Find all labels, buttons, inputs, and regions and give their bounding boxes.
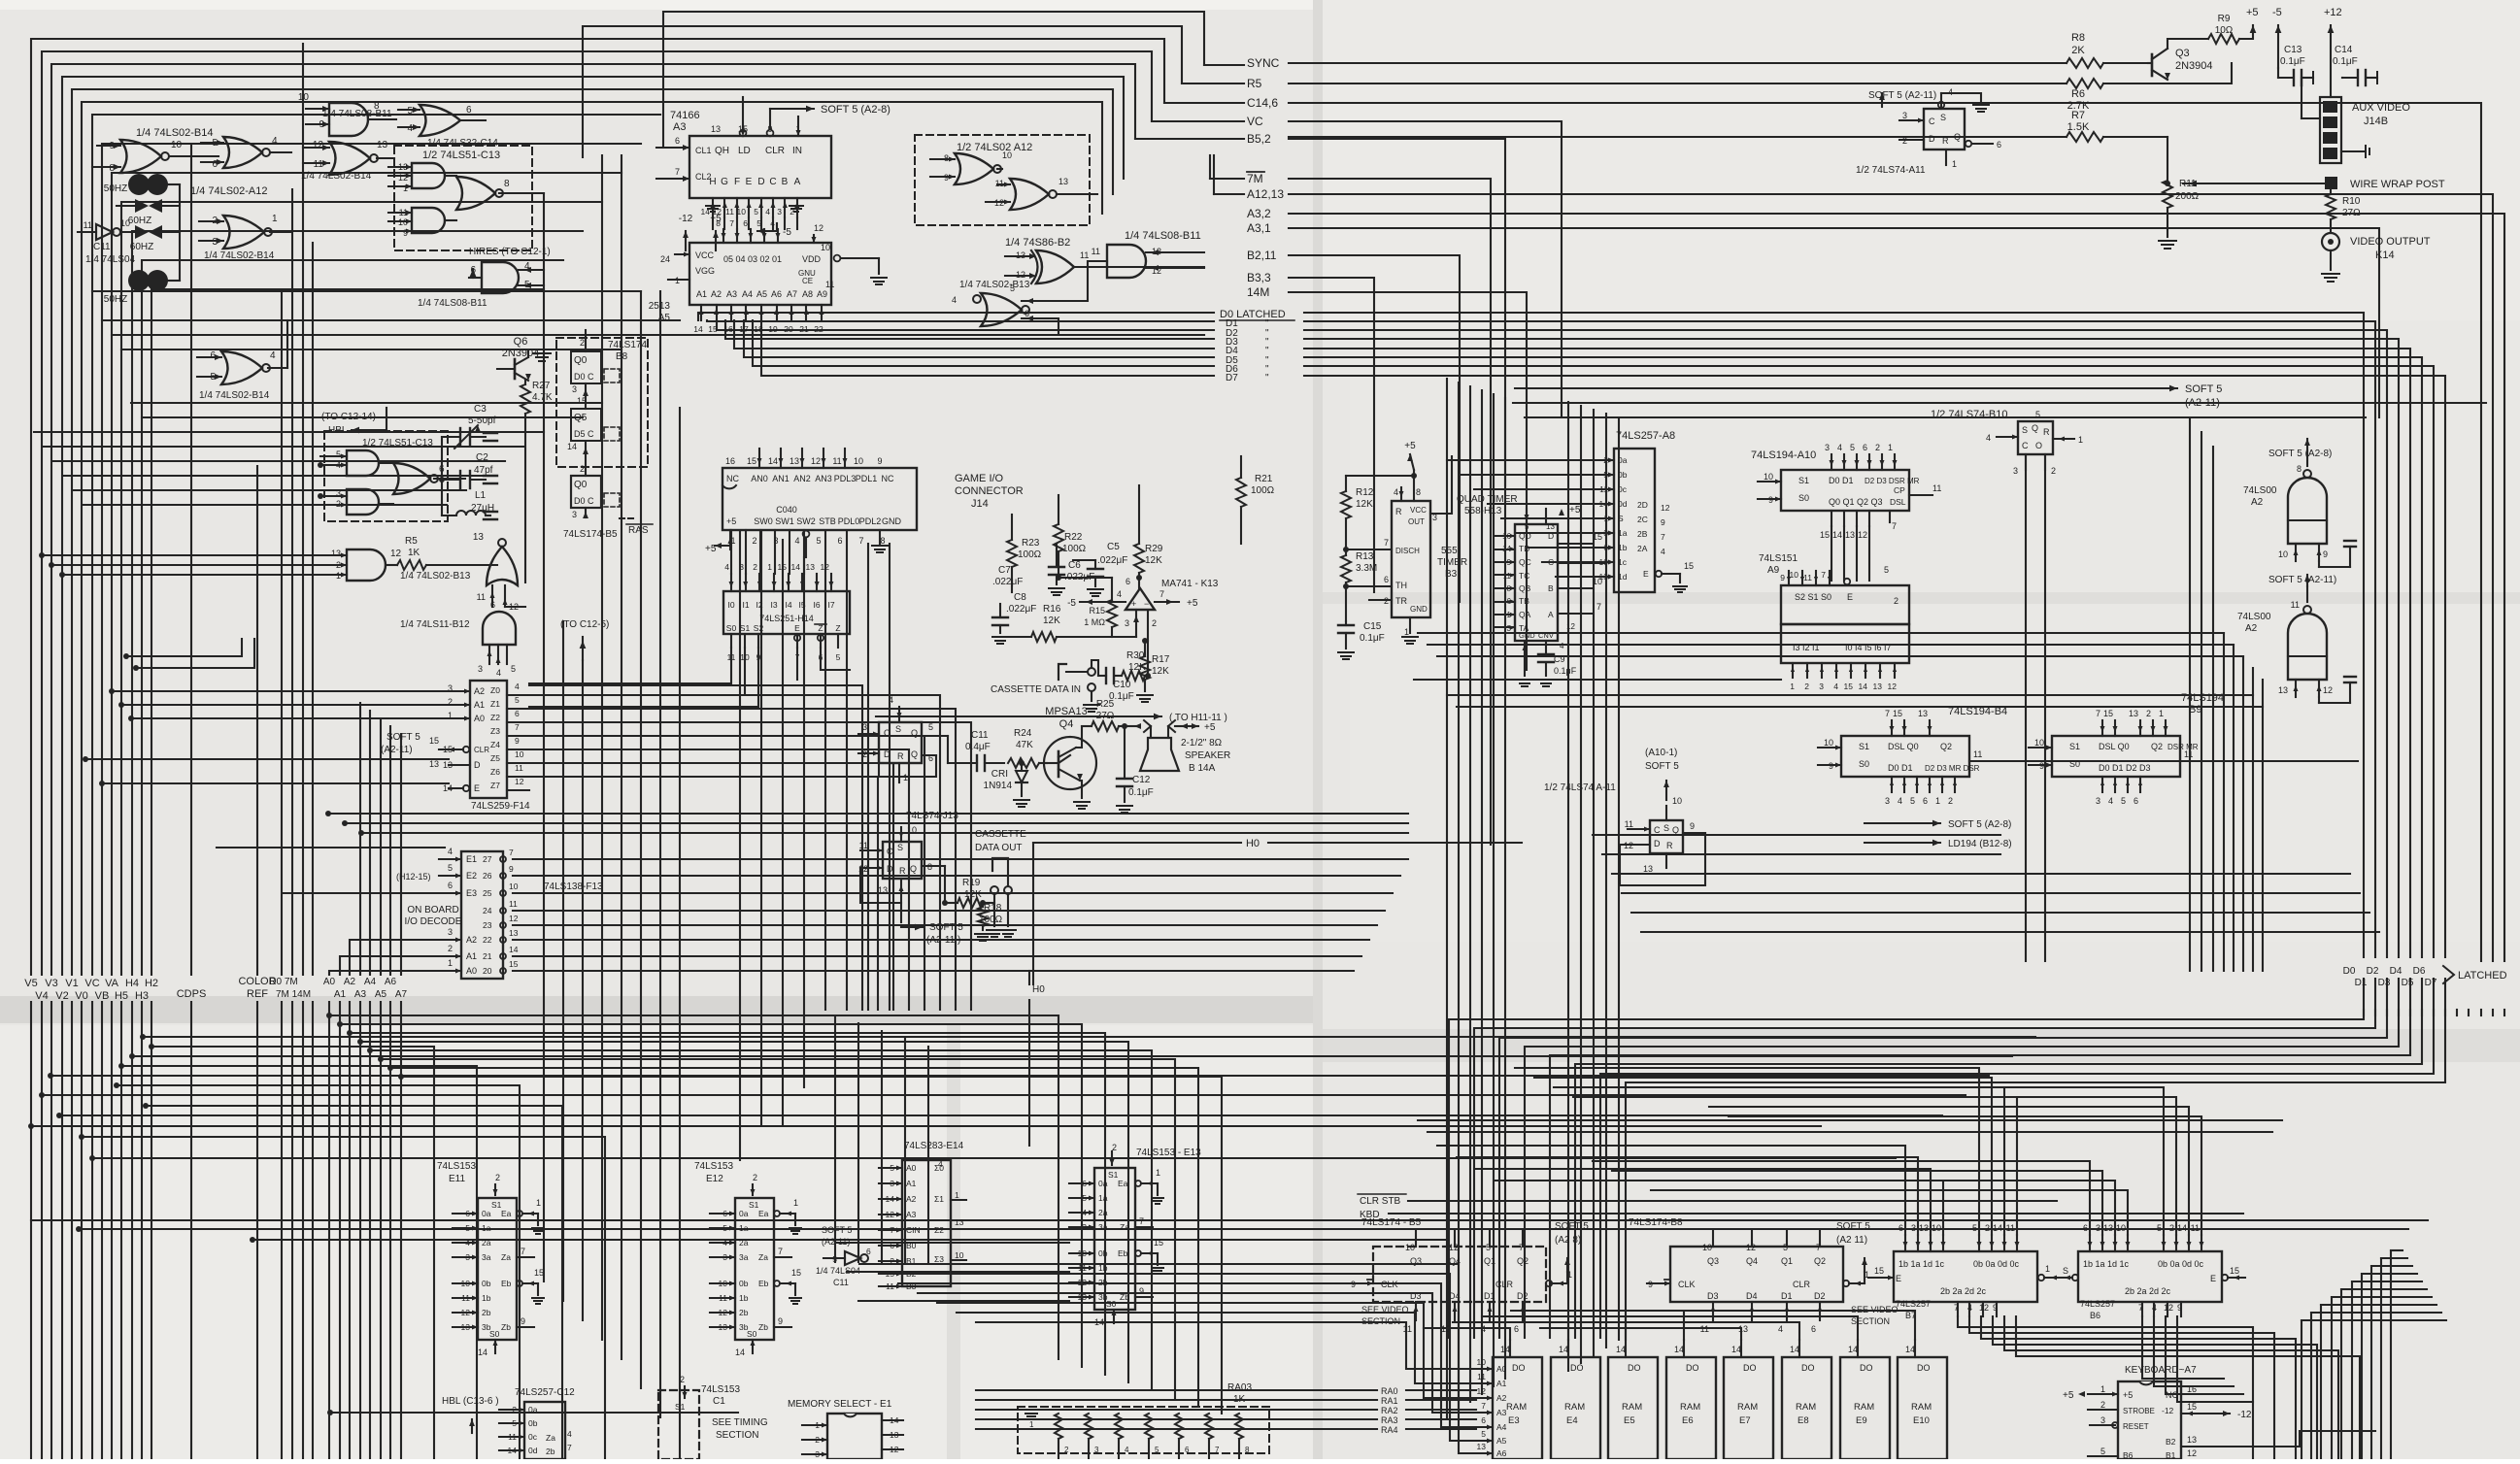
wire: [1665, 781, 1667, 800]
svg-text:1: 1: [793, 1198, 798, 1208]
svg-text:OUT: OUT: [1408, 517, 1425, 526]
svg-text:2: 2: [1948, 796, 1953, 806]
wire: [715, 545, 730, 547]
svg-text:7M 14M: 7M 14M: [276, 989, 311, 1000]
svg-text:3: 3: [448, 927, 453, 937]
wire: [31, 39, 1164, 975]
wire A5: [380, 718, 382, 975]
svg-text:7: 7: [1661, 532, 1665, 542]
wire: [1289, 62, 2066, 64]
ic 555 TIMER B3: [1392, 501, 1430, 617]
wire: [42, 1094, 1966, 1096]
wire: [1094, 577, 1096, 586]
wire: [1146, 267, 1204, 269]
svg-text:B2,11: B2,11: [1247, 249, 1277, 262]
svg-text:(A2 8): (A2 8): [1555, 1235, 1581, 1246]
svg-text:+5: +5: [1569, 505, 1581, 516]
wire: [1413, 470, 1415, 501]
wire: [51, 64, 1135, 975]
svg-text:Z0: Z0: [490, 685, 500, 695]
wire: [2330, 219, 2332, 233]
wire: [83, 504, 447, 506]
wire A7: [400, 734, 402, 975]
wire: [2318, 544, 2320, 561]
svg-text:1: 1: [272, 214, 278, 224]
wire: [1247, 171, 1264, 173]
svg-text:21: 21: [483, 951, 492, 961]
ground: [1402, 636, 1418, 638]
svg-text:R12: R12: [1356, 487, 1374, 498]
svg-text:D4: D4: [2390, 966, 2402, 977]
wire: [1124, 726, 1126, 779]
wire: [785, 108, 814, 110]
svg-text:RA1: RA1: [1381, 1396, 1398, 1406]
wire: [1917, 1235, 1919, 1251]
svg-text:A5: A5: [1496, 1436, 1507, 1446]
wire: [1069, 1226, 1094, 1228]
wire: [2183, 183, 2325, 184]
wire: [1304, 366, 2434, 957]
svg-text:3: 3: [572, 510, 577, 519]
svg-text:R6: R6: [2071, 88, 2085, 100]
wire: [439, 858, 461, 860]
svg-text:H2: H2: [145, 978, 158, 989]
wire: [469, 277, 482, 279]
svg-text:2: 2: [2146, 709, 2151, 718]
svg-text:H4: H4: [125, 978, 139, 989]
svg-text:2: 2: [2169, 1223, 2174, 1233]
svg-text:15: 15: [2230, 1266, 2239, 1276]
svg-text:C: C: [1929, 116, 1935, 126]
wire: [1474, 488, 1593, 490]
svg-text:0a: 0a: [528, 1405, 538, 1414]
svg-text:Za: Za: [501, 1252, 511, 1262]
ground: [2322, 273, 2339, 275]
ground: [1025, 1413, 1037, 1414]
wire: [1057, 193, 1097, 195]
svg-text:C5: C5: [1107, 542, 1120, 552]
wire: [1894, 454, 1896, 470]
wire: [34, 431, 544, 433]
wire: [759, 530, 761, 574]
svg-text:CASSETTE: CASSETTE: [975, 829, 1026, 840]
wire: [1178, 1439, 1180, 1459]
wire: [1493, 394, 1495, 1386]
flip-flop 74LS74-J13 upper: [879, 722, 922, 763]
svg-text:14: 14: [693, 324, 703, 334]
svg-text:D0 7M: D0 7M: [269, 977, 297, 987]
svg-text:15: 15: [1893, 709, 1902, 718]
svg-text:S1: S1: [740, 623, 751, 633]
wire: [1406, 1428, 1476, 1430]
svg-text:RAM: RAM: [1680, 1402, 1700, 1413]
wire: [359, 1002, 361, 1459]
wire: [1304, 349, 2410, 957]
wire: [715, 231, 717, 250]
wire: [1593, 547, 1614, 549]
wire: [1468, 1440, 1493, 1442]
wire: [1556, 576, 1593, 578]
diodes 60HZ: [135, 199, 149, 213]
wire: [739, 530, 741, 1160]
wire: [2141, 1302, 2143, 1316]
wire: [398, 126, 420, 128]
wire: [685, 231, 687, 250]
svg-text:1: 1: [1790, 682, 1795, 691]
wire: [1602, 853, 2000, 855]
svg-text:R22: R22: [1064, 532, 1083, 543]
svg-text:Σ1: Σ1: [934, 1194, 944, 1204]
wire: [1593, 503, 1614, 505]
svg-text:DO: DO: [1860, 1363, 1873, 1373]
wire: [117, 1085, 520, 1459]
wire: [2252, 668, 2254, 971]
wire: [42, 51, 1152, 975]
svg-text:3: 3: [2013, 466, 2018, 476]
wire: [2306, 450, 2308, 466]
ground: [872, 545, 888, 547]
svg-text:H: H: [709, 177, 716, 187]
svg-text:1: 1: [2100, 1384, 2105, 1394]
wire: [1112, 636, 1136, 638]
wire: [1891, 777, 1893, 792]
svg-text:S0: S0: [1859, 759, 1869, 769]
wire: [2262, 680, 2264, 971]
ic 74LS257 B7: [1894, 1251, 2037, 1302]
svg-text:74LS174-B5: 74LS174-B5: [563, 529, 618, 540]
svg-text:12K: 12K: [1043, 616, 1060, 626]
wire: [2295, 544, 2297, 561]
svg-text:I7: I7: [827, 600, 834, 610]
wire: [2166, 1316, 2243, 1394]
wire: [867, 544, 869, 1010]
svg-text:I6: I6: [813, 600, 820, 610]
wire: [2167, 1302, 2168, 1316]
svg-text:1b: 1b: [482, 1293, 491, 1303]
svg-text:E1: E1: [466, 854, 477, 864]
svg-text:Q4: Q4: [1746, 1256, 1758, 1266]
svg-text:9: 9: [877, 456, 882, 466]
wire: [111, 1002, 113, 1459]
wire: [2101, 1235, 2103, 1251]
svg-text:V5: V5: [24, 978, 37, 989]
wire: [1069, 1212, 1094, 1214]
svg-text:Q0: Q0: [574, 355, 588, 366]
svg-text:L1: L1: [475, 490, 487, 501]
wire: [763, 229, 765, 243]
ground: [975, 933, 991, 935]
wire: [1712, 1231, 1714, 1247]
svg-text:VDD: VDD: [802, 254, 822, 264]
svg-text:B1: B1: [2166, 1450, 2176, 1459]
wire: [710, 1213, 735, 1214]
wire: [758, 449, 760, 468]
wire: [101, 1002, 103, 1459]
svg-text:14: 14: [1848, 1345, 1858, 1354]
wire: [784, 198, 786, 217]
wire: [1495, 549, 1515, 550]
wire: [1028, 971, 1030, 984]
svg-text:10: 10: [171, 140, 183, 150]
svg-text:7: 7: [1215, 1446, 1220, 1454]
wire: [782, 540, 784, 1126]
svg-text:12: 12: [313, 140, 324, 150]
wire: [772, 198, 774, 217]
svg-text:DSL: DSL: [1890, 497, 1906, 507]
wire: [2374, 1010, 2376, 1015]
wire: [1751, 1302, 1753, 1320]
svg-text:11: 11: [2184, 749, 2193, 759]
ic RAM E5: [1608, 1357, 1658, 1459]
wire: [757, 230, 777, 232]
wire: [1345, 621, 1347, 625]
wire: [803, 557, 805, 1087]
wire: [1558, 543, 1593, 545]
wire: [1593, 410, 1595, 1355]
wire: [745, 574, 747, 591]
ground: [1084, 704, 1099, 706]
wire: [2152, 49, 2167, 59]
svg-text:100Ω: 100Ω: [1251, 485, 1275, 496]
svg-text:S0: S0: [489, 1329, 500, 1339]
wire: [1138, 485, 1140, 544]
wire: [1509, 1340, 1511, 1357]
svg-text:E2: E2: [466, 871, 477, 881]
wire: [2320, 1305, 2322, 1459]
svg-text:1/2 74LS74-A11: 1/2 74LS74-A11: [1856, 165, 1926, 176]
wire: [1482, 1316, 1626, 1340]
wire: [1891, 720, 1893, 736]
wire: [1345, 582, 1347, 621]
svg-text:KEYBOARD~A7: KEYBOARD~A7: [2125, 1365, 2197, 1376]
wire: [92, 115, 660, 975]
wire: [1495, 574, 1515, 576]
svg-text:2: 2: [495, 1173, 500, 1182]
wire: [488, 645, 490, 664]
wire: [168, 280, 180, 282]
wire: [1428, 1131, 2272, 1133]
svg-text:10: 10: [509, 882, 519, 891]
ic 1/2 74LS51-C13 dashed block (lower): [324, 431, 448, 521]
svg-text:10: 10: [1002, 150, 1012, 160]
wire: [1968, 1302, 1970, 1316]
svg-text:Q2: Q2: [1517, 1256, 1529, 1266]
svg-text:1/2 74LS51-C13: 1/2 74LS51-C13: [422, 150, 500, 161]
wire: [1513, 402, 2486, 404]
wire: [1408, 1200, 2057, 1202]
wire: [2139, 777, 2141, 792]
wire: [2352, 1281, 2422, 1282]
svg-text:2b 2a 2d 2c: 2b 2a 2d 2c: [2125, 1286, 2171, 1296]
svg-text:R9: R9: [2218, 14, 2231, 24]
svg-text:15: 15: [429, 736, 439, 746]
wire: [1415, 1302, 1417, 1320]
wire: [976, 1428, 1377, 1430]
svg-text:74LS251-H14: 74LS251-H14: [759, 614, 814, 623]
wire: [805, 305, 807, 320]
wire: [813, 235, 815, 243]
wire: [846, 530, 848, 1010]
wire: [760, 217, 762, 229]
wire: [1474, 979, 2375, 1338]
wire: [1495, 561, 1515, 563]
svg-text:74LS194-A10: 74LS194-A10: [1751, 449, 1816, 461]
svg-text:0c: 0c: [528, 1432, 538, 1442]
svg-text:CLR: CLR: [1793, 1280, 1811, 1289]
wire: [1495, 601, 1515, 603]
svg-text:Eb: Eb: [501, 1279, 512, 1288]
wire: [79, 1228, 2408, 1230]
svg-text:7: 7: [509, 848, 514, 857]
svg-text:12: 12: [2187, 1448, 2197, 1458]
wire: [776, 305, 778, 320]
svg-text:3: 3: [1825, 443, 1830, 452]
svg-text:2a: 2a: [482, 1238, 491, 1248]
wire: [656, 178, 689, 180]
wire: [1069, 1281, 1094, 1283]
svg-text:9: 9: [778, 1316, 783, 1326]
svg-text:15: 15: [791, 1268, 801, 1278]
wire: [268, 367, 287, 369]
svg-text:74166: 74166: [670, 110, 700, 121]
svg-text:R5: R5: [1247, 77, 1262, 90]
svg-text:8: 8: [1245, 1446, 1250, 1454]
wire: [789, 530, 790, 574]
wire: [2181, 1446, 2300, 1447]
wire: [948, 762, 977, 764]
wire: [730, 634, 732, 648]
wire: [72, 89, 1113, 975]
wire: [1454, 1302, 1456, 1320]
svg-text:2: 2: [448, 944, 453, 953]
wire: [1605, 414, 1607, 1348]
wire: [2044, 454, 2046, 470]
wire: [2181, 1413, 2197, 1414]
svg-text:11: 11: [1403, 1324, 1412, 1334]
svg-text:74LS257: 74LS257: [2080, 1299, 2115, 1309]
svg-text:5: 5: [1910, 796, 1915, 806]
svg-text:A12,13: A12,13: [1247, 187, 1284, 201]
wire: [1268, 842, 1522, 844]
wire: [1447, 694, 2253, 696]
wire: [529, 709, 956, 1010]
svg-text:19: 19: [768, 324, 778, 334]
wire: [882, 1434, 903, 1436]
svg-text:SW2: SW2: [796, 516, 816, 526]
svg-text:11: 11: [825, 280, 834, 289]
wire: [1458, 383, 1460, 1410]
wire: [999, 625, 1001, 633]
svg-text:5: 5: [2100, 1447, 2105, 1456]
ground: [1117, 805, 1132, 807]
wire: [44, 446, 524, 448]
wire: [1981, 1316, 2296, 1459]
svg-text:74LS00: 74LS00: [2237, 612, 2271, 622]
wire: [453, 1297, 478, 1299]
svg-text:RA0: RA0: [1381, 1386, 1398, 1396]
svg-text:8: 8: [716, 218, 721, 228]
wire: [1345, 633, 1347, 649]
svg-text:1a: 1a: [739, 1223, 749, 1233]
svg-text:A1: A1: [1496, 1379, 1507, 1388]
wire: [562, 621, 564, 1301]
wire: [2306, 586, 2308, 602]
wire: [1116, 675, 1122, 677]
wire: [1909, 494, 1932, 496]
wire: [2152, 720, 2154, 736]
wire: [1522, 1231, 1524, 1247]
wire: [1011, 567, 1013, 592]
wire: [1914, 1340, 1916, 1357]
svg-text:Q: Q: [2032, 423, 2038, 433]
wire: [1598, 1316, 1858, 1340]
ic 74LS174-B5 latch: [571, 476, 601, 508]
wire: [82, 1137, 605, 1459]
wire: [1712, 1302, 1714, 1320]
wire: [1304, 321, 2375, 957]
wire: [879, 1182, 902, 1184]
svg-text:D0 D1: D0 D1: [1829, 476, 1854, 485]
svg-text:D2: D2: [1814, 1291, 1826, 1301]
svg-text:11: 11: [2191, 1223, 2200, 1233]
wire: [710, 1242, 735, 1244]
svg-text:RA4: RA4: [1381, 1425, 1398, 1435]
svg-text:9: 9: [1780, 573, 1785, 582]
wire: [41, 1002, 43, 1459]
wire: [1414, 679, 1781, 681]
svg-text:5: 5: [448, 863, 453, 873]
wire: [349, 1002, 351, 1459]
wire: [1094, 560, 1096, 569]
svg-text:A3,1: A3,1: [1247, 221, 1271, 235]
svg-text:D0 D1: D0 D1: [1888, 763, 1913, 773]
wire: [2252, 25, 2254, 31]
wire: [780, 449, 782, 468]
wire: [1856, 511, 1858, 526]
wire: [529, 763, 893, 1010]
wire: [439, 955, 461, 957]
wire: [513, 924, 1377, 926]
wire: [879, 1273, 902, 1275]
wire: [2153, 1302, 2155, 1316]
svg-text:10: 10: [1405, 1243, 1415, 1252]
wire wrap post: [2325, 177, 2337, 189]
wire: [2101, 720, 2103, 736]
wire: [723, 217, 725, 229]
wire: [59, 1115, 1942, 1116]
svg-text:5: 5: [511, 664, 516, 674]
wire: [2341, 150, 2366, 152]
svg-text:7: 7: [2096, 709, 2100, 718]
wire: [2351, 1281, 2353, 1459]
wire: [426, 564, 497, 566]
wire: [937, 1303, 1468, 1398]
svg-text:7: 7: [515, 722, 520, 732]
wire: [141, 1002, 143, 1459]
wire COLOR REF: [256, 466, 258, 975]
wire: [1631, 912, 2369, 914]
wire: [1843, 511, 1845, 526]
svg-text:RAM: RAM: [1506, 1402, 1527, 1413]
wire: [63, 475, 486, 477]
svg-text:Z1: Z1: [490, 699, 500, 709]
wire: [901, 926, 923, 928]
wire: [453, 1227, 478, 1229]
wire: [2503, 1010, 2505, 1015]
svg-text:S0: S0: [2069, 759, 2080, 769]
svg-text:VCC: VCC: [695, 250, 715, 260]
svg-text:47K: 47K: [1016, 740, 1033, 750]
